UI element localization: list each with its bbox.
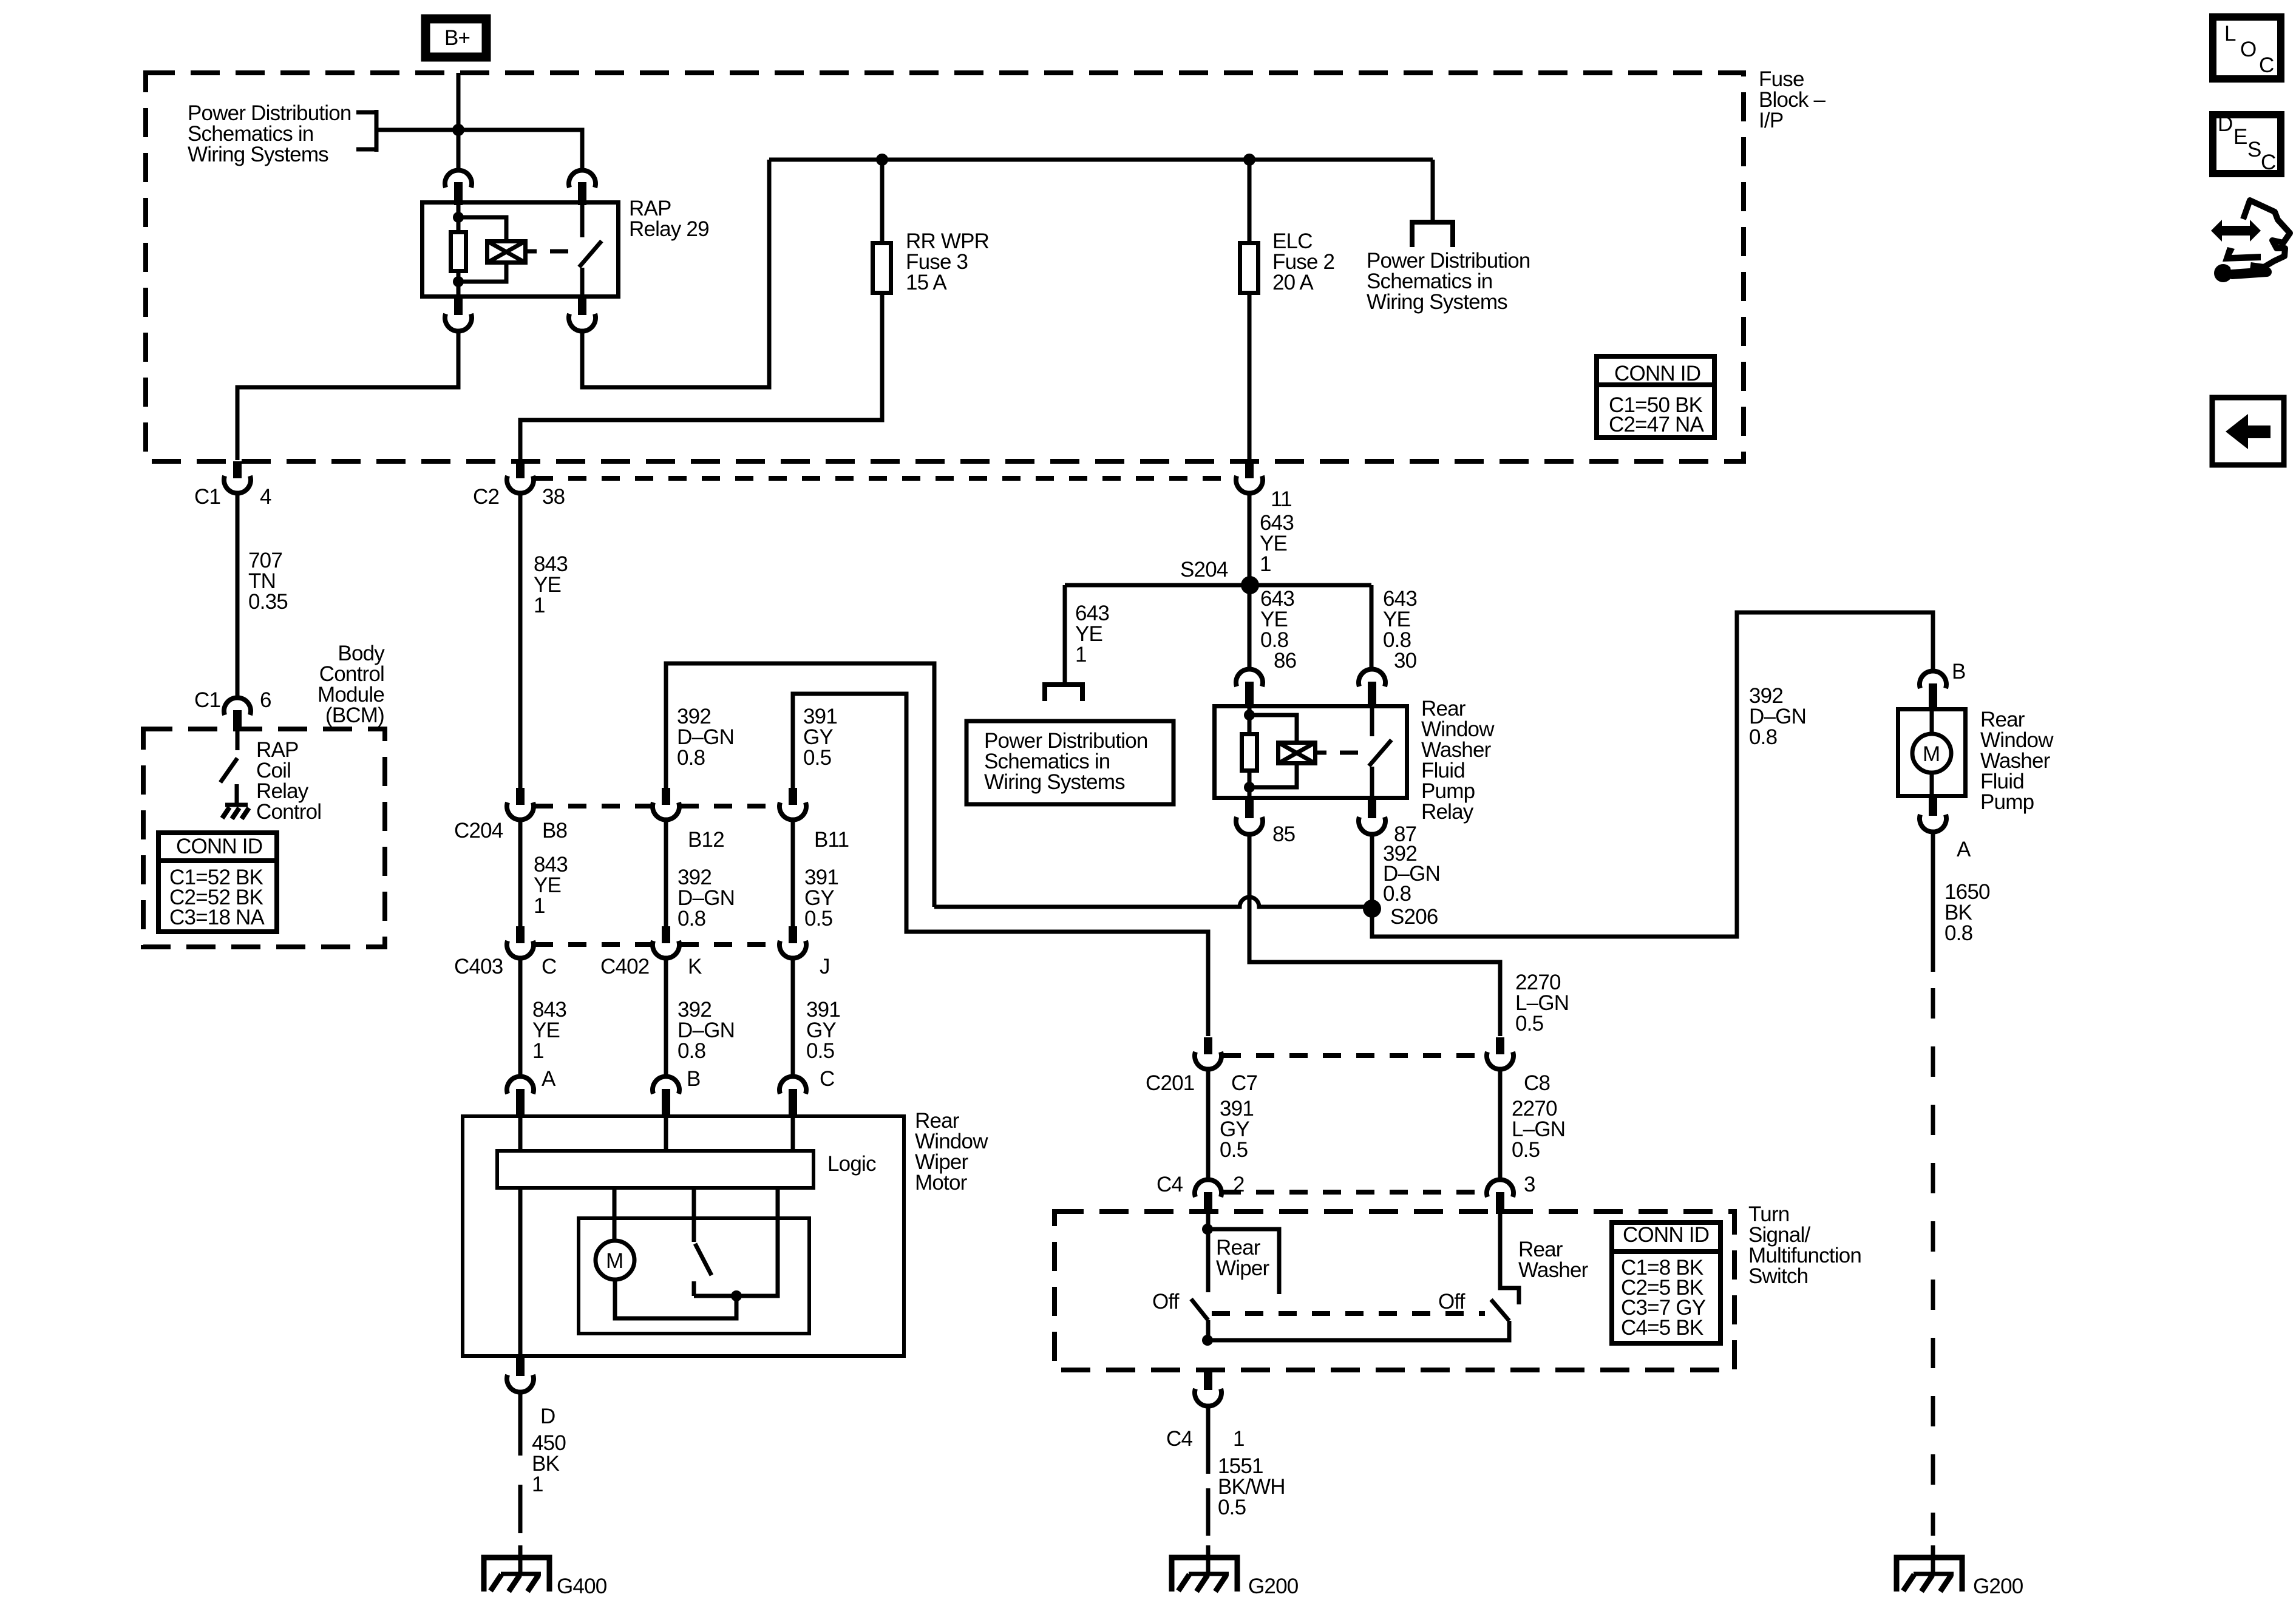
wiper switch blade <box>1191 1299 1208 1340</box>
svg-text:0.8: 0.8 <box>1749 725 1777 749</box>
label 843 YE 1 <box>534 552 568 617</box>
connector C7 <box>1195 1037 1221 1070</box>
ground (BCM internal) <box>222 784 249 819</box>
node relay coil bottom <box>453 276 464 287</box>
svg-text:1: 1 <box>534 894 545 918</box>
washer switch blade and common wire <box>1208 1300 1509 1340</box>
node washer relay coil bottom <box>1244 782 1255 793</box>
svg-text:G200: G200 <box>1973 1575 2023 1598</box>
label C1 4 <box>194 485 271 509</box>
dashed wire to G200 <box>1206 1488 1211 1536</box>
svg-text:Control: Control <box>256 800 321 824</box>
wire relay switch out up to fuse bus <box>582 160 769 387</box>
label Rear Window Wiper Motor <box>915 1109 988 1195</box>
label 392 D-GN 0.8 (pump wire) <box>1749 684 1806 749</box>
connector motor pin C <box>779 1076 806 1114</box>
label C2 38 <box>473 485 565 509</box>
wire S204 right to relay pin 30 (643 YE 0.8) <box>1370 585 1374 668</box>
label RR WPR Fuse 3 15 A <box>906 229 989 294</box>
svg-text:4: 4 <box>260 485 271 509</box>
CONN ID box (BCM) <box>158 833 277 932</box>
label 392 D-GN 0.8 <box>678 998 735 1063</box>
rear window wiper motor box <box>463 1116 904 1356</box>
label 450 BK 1 <box>532 1431 566 1496</box>
label Rear Wiper <box>1216 1236 1270 1280</box>
connector 11 (fuse block out) <box>1236 461 1263 493</box>
svg-text:C: C <box>542 955 556 978</box>
svg-text:0.5: 0.5 <box>1512 1138 1540 1162</box>
node ELC fuse tap <box>1243 154 1255 166</box>
wire S204 branch bus <box>1065 583 1371 588</box>
node washer relay coil top <box>1244 710 1255 720</box>
svg-text:C: C <box>2259 53 2274 77</box>
dashed wire to G200 right <box>1931 988 1935 1536</box>
label 391 GY 0.5 <box>804 866 838 931</box>
svg-text:A: A <box>1957 838 1971 861</box>
connector C4-1 (switch out) <box>1195 1371 1221 1406</box>
wire relay coil vertical <box>1248 704 1252 800</box>
connector washer relay pin 87 <box>1359 800 1385 835</box>
svg-text:J: J <box>820 955 830 978</box>
dotted connector link C4 row <box>1223 1190 1485 1195</box>
fuse ELC Fuse 2 20A <box>1240 243 1258 293</box>
label C403 C <box>454 955 556 978</box>
node motor switch junction <box>731 1290 742 1301</box>
svg-text:0.5: 0.5 <box>1218 1496 1246 1519</box>
fuse RR WPR Fuse 3 15A <box>873 243 891 293</box>
svg-text:0.5: 0.5 <box>803 746 831 770</box>
node B+ junction <box>452 124 464 136</box>
svg-text:L: L <box>2224 22 2236 46</box>
relay switch blade <box>579 205 602 297</box>
label 843 YE 1 <box>534 853 568 918</box>
node wiper switch bottom <box>1202 1335 1213 1346</box>
svg-text:Washer: Washer <box>1518 1258 1589 1282</box>
wire ELC fuse to connector 11 <box>1248 295 1252 460</box>
svg-text:C8: C8 <box>1524 1071 1550 1095</box>
wire pump A down (1650 BK) <box>1931 833 1935 972</box>
wire M bottom loop <box>615 1280 736 1318</box>
wire C8 to C4-3 (2270 L-GN) <box>1498 1070 1503 1180</box>
svg-text:Off: Off <box>1438 1290 1466 1314</box>
connector washer relay pin 85 <box>1236 800 1263 835</box>
label Power Distribution Schematics (top right) <box>1367 249 1530 314</box>
label 843 YE 1 <box>532 998 566 1063</box>
svg-text:0.5: 0.5 <box>804 907 832 931</box>
svg-text:C4=5 BK: C4=5 BK <box>1621 1316 1703 1340</box>
svg-text:CONN ID: CONN ID <box>1614 362 1700 385</box>
wire logic to M <box>613 1190 617 1241</box>
svg-text:C1: C1 <box>194 688 220 712</box>
CONN ID box (turn signal switch) <box>1612 1222 1720 1343</box>
svg-text:B8: B8 <box>542 819 567 842</box>
svg-text:S: S <box>2247 138 2261 161</box>
label 643 YE 0.8 30 <box>1383 587 1417 673</box>
wire coil branch loop <box>458 217 506 282</box>
svg-text:6: 6 <box>260 688 271 712</box>
svg-text:Switch: Switch <box>1748 1264 1808 1288</box>
wire S206 to washer pump B (392 D-GN) <box>1372 612 1933 937</box>
svg-text:0.8: 0.8 <box>1944 921 1972 945</box>
washer relay switch blade <box>1369 704 1391 800</box>
svg-text:CONN ID: CONN ID <box>1623 1223 1709 1247</box>
wire B12 to C402-K (392 D-GN) <box>664 821 668 926</box>
svg-text:B+: B+ <box>444 26 470 50</box>
svg-text:0.5: 0.5 <box>1515 1012 1543 1036</box>
svg-text:G200: G200 <box>1248 1575 1299 1598</box>
turn signal multifunction switch dashed box <box>1055 1212 1734 1370</box>
label Power Distribution Schematics (top left) <box>188 101 352 166</box>
node relay coil top <box>453 212 464 223</box>
label 87 392 D-GN 0.8 <box>1383 822 1440 906</box>
svg-text:(BCM): (BCM) <box>325 703 384 727</box>
connector C403-C <box>507 926 534 958</box>
connector C402-J <box>779 926 806 958</box>
motor M circle <box>596 1241 634 1280</box>
label 643 YE 1 (left branch) <box>1075 602 1109 666</box>
svg-text:Motor: Motor <box>915 1171 968 1195</box>
fuse block I/P dashed box <box>146 73 1744 461</box>
svg-text:B: B <box>687 1067 701 1091</box>
svg-text:A: A <box>542 1067 556 1091</box>
wire B11 to C402-J (391 GY) <box>791 821 795 926</box>
svg-text:S204: S204 <box>1180 558 1228 581</box>
node fuse 3 tap <box>876 154 888 166</box>
rear window washer fluid pump box <box>1898 710 1966 796</box>
svg-text:1: 1 <box>1233 1427 1245 1451</box>
svg-text:M: M <box>606 1249 623 1273</box>
svg-text:1: 1 <box>534 594 545 617</box>
svg-text:Relay: Relay <box>1421 800 1474 824</box>
connector motor pin B <box>653 1076 679 1114</box>
label Turn Signal Multifunction Switch <box>1748 1202 1861 1288</box>
svg-text:20 A: 20 A <box>1272 271 1314 294</box>
connector C1-6 (into BCM) <box>224 697 251 731</box>
svg-text:0.8: 0.8 <box>677 746 705 770</box>
box Power Distribution Schematics in Wiring Systems <box>966 721 1173 804</box>
logic bar <box>497 1151 813 1188</box>
label ELC Fuse 2 20 A <box>1272 229 1334 294</box>
svg-text:O: O <box>2240 38 2256 61</box>
connector arc RAP relay pin out (bottom right) <box>569 297 596 331</box>
node wiper switch top <box>1202 1224 1213 1235</box>
wire C403 to motor pin A (843 YE) <box>518 959 523 1076</box>
label Rear Window Washer Fluid Pump <box>1980 708 2054 814</box>
label Rear Window Washer Fluid Pump Relay <box>1421 697 1495 824</box>
connector washer relay pin 30 <box>1359 669 1385 705</box>
connector motor pin A <box>507 1076 534 1114</box>
connector arc RAP relay coil pin (top left) <box>445 170 472 205</box>
dashed wire to G400 <box>518 1485 523 1533</box>
svg-text:B12: B12 <box>688 828 724 852</box>
connector C2-38 (fuse block out) <box>507 461 534 493</box>
label 707 TN 0.35 <box>248 549 288 614</box>
BCM dashed box <box>143 729 385 947</box>
wire S204 to relay pin 86 (643 YE 0.8) <box>1248 585 1252 668</box>
wire C2 to C204 (843 YE) <box>518 494 523 788</box>
ground G200 (right) <box>1897 1545 1962 1592</box>
dotted connector link C204 row <box>535 804 778 808</box>
resistor RAP relay coil <box>451 232 466 271</box>
icon back arrow <box>2212 398 2284 465</box>
wire relay 85 to C8 (2270 L-GN) <box>1249 835 1500 1036</box>
connector C4-3 (into switch) <box>1487 1179 1513 1214</box>
wire B+ down to RAP relay pin 1 <box>457 73 461 169</box>
label 643 YE 0.8 86 <box>1260 587 1296 673</box>
label C204 B8 <box>454 819 567 842</box>
svg-text:C204: C204 <box>454 819 503 842</box>
svg-text:Pump: Pump <box>1980 790 2034 814</box>
motor inner sub-box <box>579 1218 809 1334</box>
svg-text:I/P: I/P <box>1759 109 1783 132</box>
washer relay solenoid X box <box>1278 742 1316 764</box>
svg-text:C402: C402 <box>600 955 649 978</box>
label 643 YE 1 <box>1260 511 1294 576</box>
svg-text:38: 38 <box>542 485 565 509</box>
svg-text:Logic: Logic <box>827 1152 876 1176</box>
label 391 GY 0.5 <box>806 998 840 1063</box>
wire B11 up and over to C7 (391 GY) <box>793 694 1208 1036</box>
label 1650 BK 0.8 <box>1944 880 1990 945</box>
CONN ID box (fuse block) <box>1597 356 1714 438</box>
svg-text:CONN ID: CONN ID <box>176 835 262 858</box>
svg-text:Off: Off <box>1152 1290 1180 1314</box>
wire logic to motor D out <box>518 1190 523 1358</box>
svg-text:D: D <box>2218 112 2232 136</box>
label 2270 L-GN 0.5 (upper) <box>1515 971 1569 1036</box>
svg-text:C2=47 NA: C2=47 NA <box>1609 413 1705 436</box>
label RAP Relay 29 <box>629 197 709 241</box>
svg-text:C4: C4 <box>1156 1173 1183 1196</box>
svg-text:Wiring Systems: Wiring Systems <box>984 770 1125 794</box>
wire C4-1 to ground (1551 BK/WH) <box>1206 1407 1211 1474</box>
connector motor pin D <box>507 1358 534 1392</box>
label 2270 L-GN 0.5 (lower) <box>1512 1097 1565 1162</box>
splice S206 <box>1363 900 1381 918</box>
BCM RAP coil control switch <box>220 731 237 782</box>
wire C4-2 into switch <box>1206 1214 1211 1292</box>
rear wiper contact bracket <box>1207 1229 1279 1294</box>
wire D to ground (450 BK) <box>518 1393 523 1456</box>
connector washer relay pin 86 <box>1236 669 1263 705</box>
motor park switch <box>694 1190 778 1296</box>
svg-text:1: 1 <box>1260 552 1271 576</box>
wire S204 left branch to bracket <box>1063 585 1067 683</box>
svg-text:Wiper: Wiper <box>1216 1256 1270 1280</box>
wires motor pins to logic bar <box>520 1114 793 1149</box>
svg-text:0.8: 0.8 <box>678 907 705 931</box>
connector B11 <box>779 788 806 820</box>
resistor washer relay coil <box>1242 734 1257 771</box>
wire C1-4 to C1-6 (707 TN) <box>236 494 240 696</box>
label C402 K <box>600 955 702 978</box>
relay RAP Relay 29 box <box>423 203 619 297</box>
svg-text:0.5: 0.5 <box>806 1039 834 1063</box>
svg-text:K: K <box>688 955 702 978</box>
off-page bracket power distribution (top right) <box>1412 222 1453 247</box>
connector arc RAP relay pin out (bottom left) <box>445 297 472 331</box>
splice S204 <box>1241 576 1259 594</box>
svg-text:Relay 29: Relay 29 <box>629 217 709 241</box>
connector C8 <box>1487 1037 1513 1070</box>
svg-text:11: 11 <box>1271 487 1292 511</box>
svg-text:85: 85 <box>1272 822 1295 846</box>
dotted connector link C2 to 11 <box>535 476 1235 481</box>
svg-text:0.35: 0.35 <box>248 590 288 614</box>
svg-text:Wiring Systems: Wiring Systems <box>1367 290 1507 314</box>
svg-text:1: 1 <box>1075 643 1087 666</box>
wire fuse 3 to C2 <box>520 295 882 460</box>
relay solenoid X box <box>487 241 526 263</box>
label Body Control Module (BCM) <box>318 642 385 727</box>
wire B12 up and over to S206 (392 D-GN) <box>666 663 1365 907</box>
ground G200 (switch) <box>1172 1545 1237 1592</box>
svg-text:Wiring Systems: Wiring Systems <box>188 143 328 166</box>
label 392 D-GN 0.8 <box>678 866 735 931</box>
connector pump pin B <box>1920 671 1946 709</box>
off-page bracket power distribution (top left) <box>356 110 376 152</box>
label C201 C7 <box>1146 1071 1257 1095</box>
svg-text:C: C <box>820 1067 834 1091</box>
wire relay coil out to C1-4 <box>237 332 458 460</box>
relay actuator dashed link <box>528 249 568 254</box>
label C4 2 <box>1156 1173 1245 1196</box>
wire fuse feed bus <box>769 158 1433 162</box>
svg-text:S206: S206 <box>1390 905 1438 929</box>
connector C204-B8 <box>507 788 534 820</box>
B+ power symbol <box>426 19 486 57</box>
svg-text:C4: C4 <box>1166 1427 1192 1451</box>
svg-text:1: 1 <box>532 1473 543 1496</box>
connector C1-4 (fuse block out) <box>224 461 251 493</box>
label C1 6 <box>194 688 271 712</box>
label 392 D-GN 0.8 (above B12) <box>677 705 734 770</box>
dotted connector link C403 row <box>535 942 778 947</box>
pump motor M circle <box>1912 709 1951 796</box>
icon DESC <box>2213 112 2281 174</box>
svg-text:G400: G400 <box>557 1575 607 1598</box>
svg-text:C2: C2 <box>473 485 499 509</box>
connector C402-K <box>653 926 679 958</box>
wire bracket to relay switch pin feed <box>376 130 582 169</box>
connector pump pin A <box>1920 796 1946 832</box>
svg-text:30: 30 <box>1394 649 1417 673</box>
svg-text:C1: C1 <box>194 485 220 509</box>
wire to fuse 3 <box>880 160 885 241</box>
svg-text:C3=18 NA: C3=18 NA <box>169 906 265 929</box>
wire C402-K to motor pin B (392 D-GN) <box>664 959 668 1076</box>
label 1551 BK/WH 0.5 <box>1218 1454 1285 1519</box>
ground G400 <box>484 1545 549 1592</box>
svg-text:D: D <box>540 1405 555 1428</box>
svg-text:0.8: 0.8 <box>1383 882 1411 906</box>
connector arc RAP relay switch pin (top right) <box>569 170 596 205</box>
icon hand with wrench (two-way arrow) <box>2211 200 2290 282</box>
off-page bracket (to power distribution box) <box>1045 685 1082 701</box>
wire C4-3 into switch to washer contact <box>1500 1214 1519 1304</box>
connector B12 <box>653 788 679 820</box>
washer pump relay box <box>1215 707 1407 798</box>
label 391 GY 0.5 <box>1220 1097 1254 1162</box>
label C4 1 <box>1166 1427 1245 1451</box>
svg-text:E: E <box>2233 125 2247 149</box>
wire coil vertical inside relay <box>457 205 461 297</box>
wire to ELC fuse 2 <box>1248 160 1252 241</box>
svg-text:C403: C403 <box>454 955 503 978</box>
label RAP Coil Relay Control <box>256 738 321 824</box>
svg-text:86: 86 <box>1274 649 1296 673</box>
svg-text:M: M <box>1923 742 1940 766</box>
dotted gang link between switches <box>1212 1311 1485 1316</box>
label Rear Washer <box>1518 1238 1589 1282</box>
wire relay 87 to S206 <box>1370 835 1374 908</box>
svg-text:B11: B11 <box>814 828 849 852</box>
label Fuse Block I/P <box>1759 67 1826 132</box>
svg-text:C: C <box>2261 151 2275 174</box>
svg-text:15 A: 15 A <box>906 271 947 294</box>
wire bus to off-page bracket (right) <box>1431 160 1435 222</box>
svg-text:C201: C201 <box>1146 1071 1194 1095</box>
washer relay actuator dashed link <box>1317 751 1358 755</box>
wire C7 to C4-2 (391 GY) <box>1206 1070 1211 1180</box>
wire washer coil branch loop <box>1249 715 1297 787</box>
svg-text:1: 1 <box>532 1039 544 1063</box>
svg-text:0.8: 0.8 <box>678 1039 705 1063</box>
icon LOC <box>2213 17 2281 79</box>
svg-text:0.5: 0.5 <box>1220 1138 1248 1162</box>
dotted connector link C7 to C8 <box>1223 1053 1485 1058</box>
svg-text:C7: C7 <box>1231 1071 1257 1095</box>
label 391 GY 0.5 (above B11) <box>803 705 837 770</box>
wire C204 to C403 (843 YE) <box>518 821 523 926</box>
connector C4-2 (into switch) <box>1195 1179 1221 1214</box>
svg-text:3: 3 <box>1524 1173 1535 1196</box>
wire C402-J to motor pin C (391 GY) <box>791 959 795 1076</box>
wire 11 to S204 (643 YE) <box>1248 494 1252 585</box>
svg-text:B: B <box>1952 660 1966 683</box>
